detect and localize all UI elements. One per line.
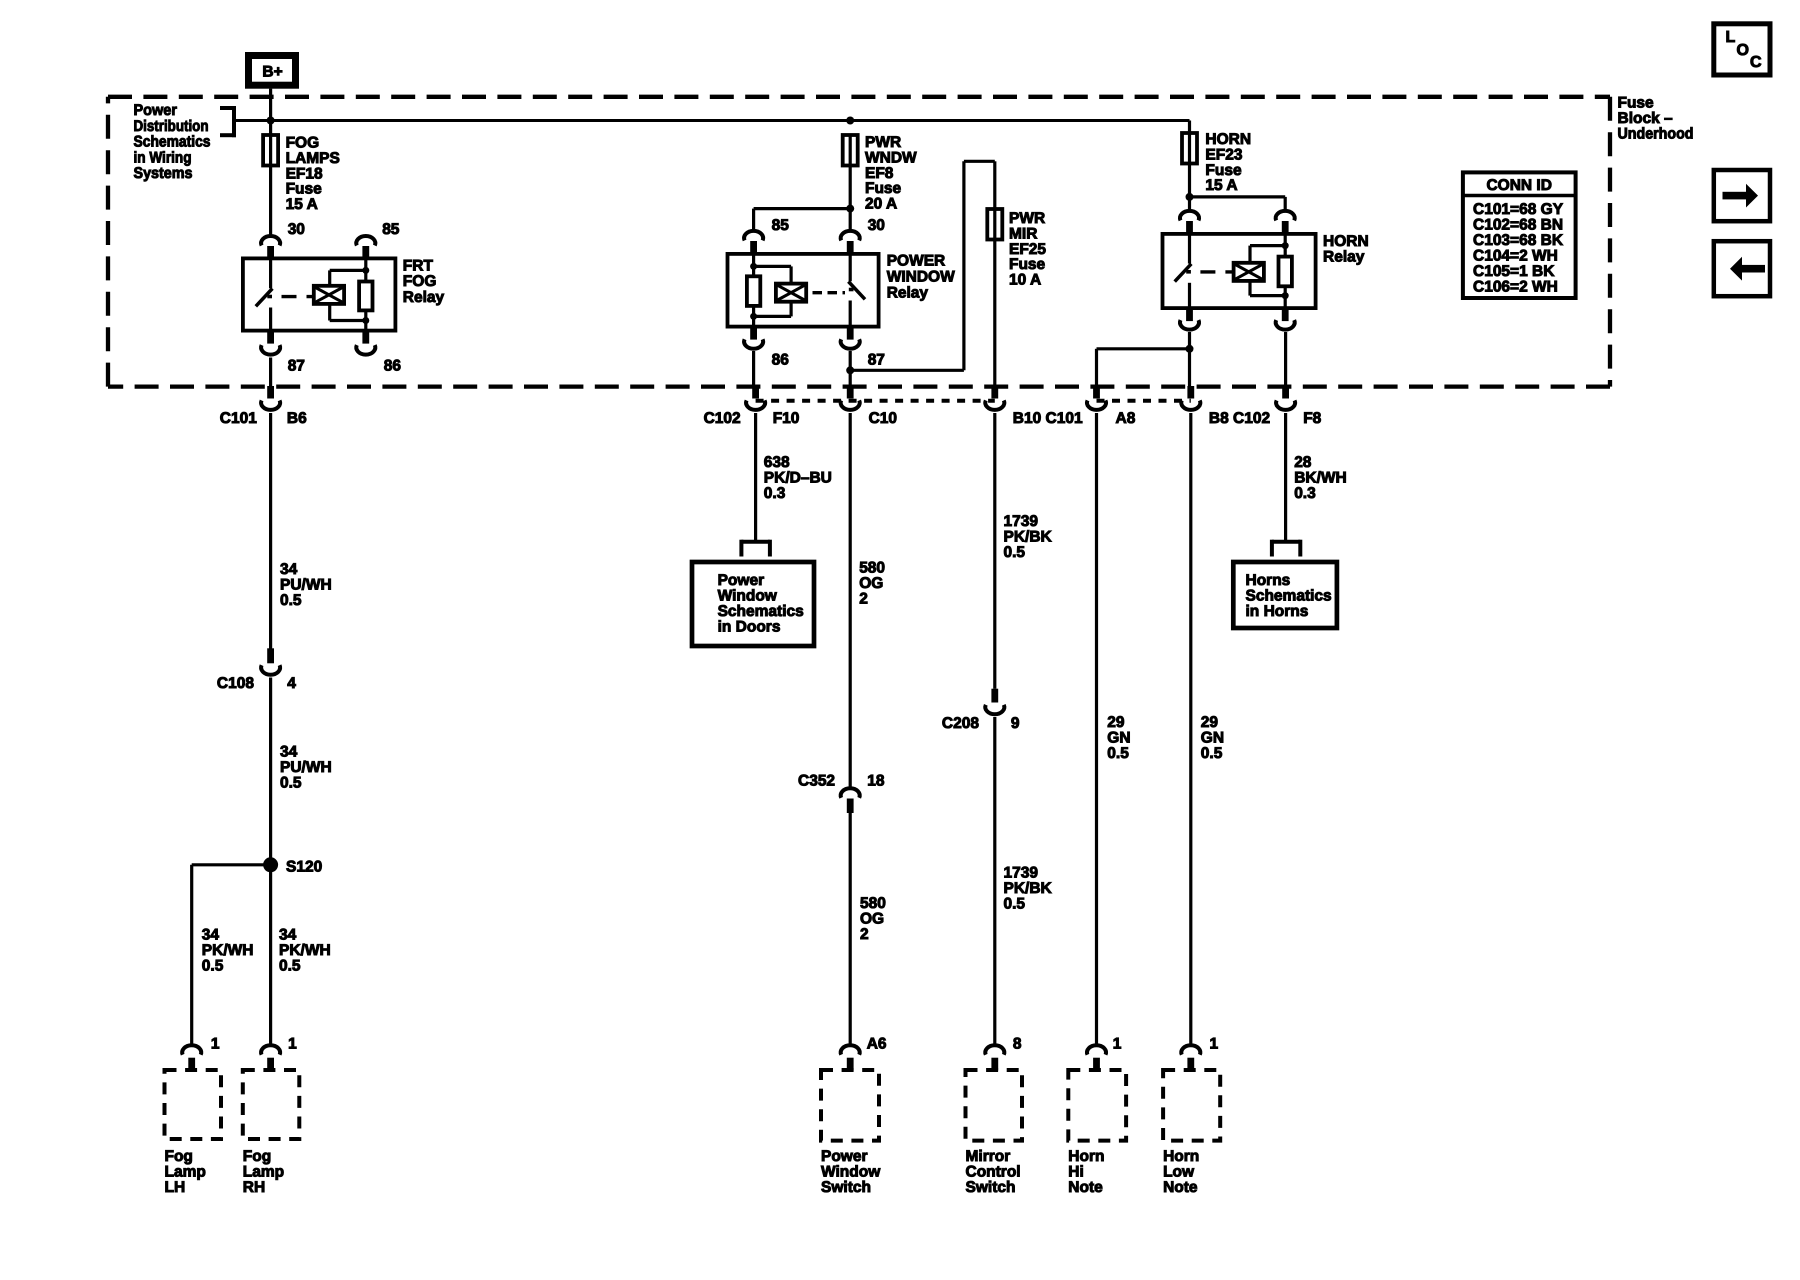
- label C101: [220, 410, 257, 427]
- connector pin 85 of POWER WINDOW relay: [744, 231, 763, 255]
- CONN ID table: [1463, 172, 1576, 298]
- svg-text:C208: C208: [942, 715, 979, 732]
- pin label 86: [384, 357, 402, 374]
- POWER WINDOW relay switch pivot to pin 87: [849, 301, 852, 327]
- connector mirror control switch pin 8: [985, 1045, 1004, 1070]
- svg-text:Window: Window: [718, 588, 778, 605]
- wire 580 OG lower segment: [849, 813, 852, 1045]
- fuse EF25 PWR MIR 10A: [987, 208, 1002, 241]
- wire fuse EF18 to relay pin 30: [269, 166, 272, 237]
- wire fuse EF23 to junction: [1188, 164, 1191, 197]
- connector right pin of HORN relay: [1276, 211, 1295, 235]
- svg-text:30: 30: [868, 217, 885, 234]
- pin label 1 fog lamp LH: [211, 1036, 220, 1053]
- connector C101 pin B6: [261, 386, 280, 410]
- wire relay 86 to connector C102-F10: [752, 351, 755, 387]
- connector pin 86 of FRT FOG relay: [356, 331, 375, 355]
- dotted connector gang line F10-C10-B10: [756, 399, 995, 403]
- svg-text:C101=68 GY: C101=68 GY: [1473, 201, 1564, 218]
- connector pin 87 of FRT FOG relay: [261, 331, 280, 355]
- wire label 34 PU/WH 0.5 lower: [280, 744, 332, 792]
- svg-text:in Wiring: in Wiring: [134, 149, 192, 166]
- svg-text:18: 18: [867, 773, 885, 790]
- svg-text:C102=68 BN: C102=68 BN: [1473, 216, 1563, 233]
- wire 29 GN left segment: [1095, 413, 1098, 1045]
- junction coil-resistor top: [750, 263, 757, 270]
- HORN relay switch contact: [1188, 234, 1191, 264]
- wire B+ to fuse block bus: [269, 89, 272, 136]
- pin label 1 fog lamp RH: [288, 1036, 297, 1053]
- svg-text:Relay: Relay: [403, 289, 445, 306]
- svg-text:1: 1: [211, 1036, 220, 1053]
- junction A8 branch: [1186, 345, 1194, 353]
- forward arrow icon: [1714, 170, 1770, 221]
- svg-text:B+: B+: [262, 63, 282, 80]
- svg-text:9: 9: [1011, 715, 1020, 732]
- svg-text:S120: S120: [286, 859, 322, 876]
- pin label 8: [1013, 1036, 1022, 1053]
- connector C101 pin B10: [985, 386, 1004, 410]
- connector horn low note pin 1: [1181, 1045, 1200, 1070]
- svg-text:Power: Power: [134, 102, 178, 119]
- svg-text:15 A: 15 A: [286, 196, 318, 213]
- label FOG LAMPS EF18 Fuse 15 A: [286, 135, 340, 214]
- svg-text:C105=1 BK: C105=1 BK: [1473, 263, 1555, 280]
- svg-text:0.5: 0.5: [280, 774, 302, 791]
- label Mirror Control Switch: [966, 1148, 1021, 1196]
- FRT FOG relay switch contact from pin 30: [269, 258, 272, 288]
- wire HORN relay right pin to connector C102-F8: [1284, 332, 1287, 387]
- connector bottom-right pin of HORN relay: [1276, 308, 1295, 330]
- FRT FOG relay switch pivot to pin 87: [269, 308, 272, 331]
- svg-text:0.5: 0.5: [1107, 745, 1129, 762]
- component Horn Hi Note (dashed box): [1068, 1070, 1126, 1141]
- svg-text:2: 2: [860, 926, 869, 943]
- junction 87 to PWR MIR riser: [846, 366, 854, 374]
- label Power Window Switch: [821, 1148, 881, 1196]
- wire label 29 GN 0.5 left: [1107, 714, 1130, 762]
- fuse EF18 FOG LAMPS 15A: [263, 134, 278, 167]
- POWER WINDOW relay coil: [776, 284, 806, 302]
- connector horn hi note pin 1: [1087, 1045, 1106, 1070]
- wire label 34 PU/WH 0.5 upper: [280, 561, 332, 609]
- wire coil top branch: [330, 270, 366, 285]
- relay U3 HORN relay box: [1163, 234, 1316, 308]
- wire label 1739 PK/BK 0.5 upper: [1004, 513, 1053, 561]
- pin label A6: [867, 1036, 887, 1053]
- svg-text:0.3: 0.3: [1294, 485, 1316, 502]
- label C10: [869, 410, 897, 427]
- component Fog Lamp RH (dashed box): [243, 1070, 299, 1139]
- component Fog Lamp LH (dashed box): [165, 1070, 222, 1139]
- POWER WINDOW relay switch blade: [848, 282, 865, 300]
- svg-text:Distribution: Distribution: [134, 118, 209, 135]
- wire 34 PU/WH upper segment: [269, 413, 272, 649]
- svg-text:Horns: Horns: [1246, 572, 1291, 589]
- pin label 1 horn hi: [1113, 1036, 1122, 1053]
- POWER WINDOW relay resistor: [747, 254, 760, 327]
- svg-text:C104=2 WH: C104=2 WH: [1473, 247, 1558, 264]
- svg-text:A6: A6: [867, 1036, 887, 1053]
- label 18: [867, 773, 885, 790]
- reference box Horns Schematics in Horns: [1233, 562, 1337, 628]
- off-page bracket to Power Window Schematics: [741, 540, 770, 557]
- label Horn Hi Note: [1068, 1148, 1104, 1196]
- connector pin 85 of FRT FOG relay: [356, 236, 375, 259]
- connector fog lamp RH pin 1: [261, 1045, 280, 1070]
- connector C108 pin 4: [261, 648, 280, 674]
- wire fuse EF8 to junction: [849, 166, 852, 209]
- label PWR WNDW EF8 Fuse 20 A: [865, 134, 917, 213]
- label Fuse Block - Underhood: [1618, 95, 1694, 143]
- label PWR MIR EF25 Fuse 10 A: [1009, 210, 1046, 289]
- back arrow icon: [1714, 241, 1770, 296]
- wire HORN relay left pin down: [1188, 332, 1191, 387]
- connector fog lamp LH pin 1: [182, 1045, 201, 1070]
- svg-text:LH: LH: [165, 1179, 186, 1196]
- junction coil-resistor top: [1282, 242, 1289, 249]
- wire 1739 PK/BK lower segment: [993, 717, 996, 1045]
- svg-text:FRT: FRT: [403, 257, 434, 274]
- FRT FOG relay switch blade: [256, 289, 273, 307]
- wire label 580 OG 2 lower: [860, 895, 886, 943]
- svg-text:0.5: 0.5: [1004, 895, 1026, 912]
- POWER WINDOW relay switch contact from pin 30: [849, 254, 852, 281]
- pin label 1 horn low: [1210, 1036, 1219, 1053]
- label 9: [1011, 715, 1020, 732]
- svg-text:O: O: [1737, 42, 1749, 59]
- svg-text:30: 30: [288, 221, 305, 238]
- connector C102 pin F10: [746, 386, 765, 410]
- label POWER WINDOW Relay: [887, 253, 955, 302]
- svg-text:20 A: 20 A: [865, 196, 897, 213]
- pin label 30: [868, 217, 885, 234]
- wire label 28 BK/WH 0.3: [1294, 454, 1347, 502]
- junction coil-resistor bottom: [750, 313, 757, 320]
- svg-text:85: 85: [382, 221, 400, 238]
- svg-text:86: 86: [772, 352, 790, 369]
- label B8 C102: [1209, 410, 1270, 427]
- component Power Window Switch (dashed box): [821, 1070, 879, 1141]
- svg-text:RH: RH: [243, 1179, 265, 1196]
- svg-text:Note: Note: [1068, 1179, 1103, 1196]
- wire to pin 30: [849, 209, 852, 231]
- svg-text:HORN: HORN: [1323, 233, 1369, 250]
- wire 34 PU/WH lower segment: [269, 678, 272, 865]
- wire S120 branch to fog lamp LH: [192, 865, 272, 1045]
- relay U2 POWER WINDOW relay box: [728, 254, 879, 327]
- component Horn Low Note (dashed box): [1163, 1070, 1220, 1141]
- FRT FOG relay coil actuation dashed link: [282, 295, 314, 298]
- wire main bus B+ feed: [234, 119, 1190, 122]
- splice S120: [263, 857, 278, 872]
- label B10 C101: [1013, 410, 1083, 427]
- connector bottom-left pin of HORN relay: [1180, 308, 1199, 330]
- label C102: [704, 410, 741, 427]
- HORN relay coil actuation dashed link: [1200, 270, 1233, 273]
- svg-text:C: C: [1750, 54, 1762, 71]
- svg-text:Schematics: Schematics: [718, 603, 804, 620]
- connector pin 86 of POWER WINDOW relay: [744, 327, 763, 349]
- connector pin C10: [841, 386, 860, 410]
- connector C208 pin 9: [985, 689, 1004, 715]
- svg-text:C108: C108: [217, 675, 254, 692]
- wire coil bottom branch: [754, 302, 792, 317]
- connector pin 87 of POWER WINDOW relay: [841, 327, 860, 349]
- svg-text:POWER: POWER: [887, 253, 946, 270]
- connector pin 30 of FRT FOG relay: [261, 236, 280, 259]
- wire 28 BK/WH to horns schematic: [1284, 413, 1287, 542]
- svg-text:0.5: 0.5: [279, 957, 301, 974]
- wire 29 GN right segment: [1189, 413, 1192, 1045]
- junction coil-resistor bottom: [362, 317, 369, 324]
- fuse EF8 PWR WNDW 20A: [843, 134, 858, 167]
- svg-text:Schematics: Schematics: [1246, 588, 1332, 605]
- wire label 580 OG 2 upper: [859, 560, 885, 608]
- label HORN EF23 Fuse 15 A: [1205, 131, 1251, 194]
- pin label 87: [288, 357, 305, 374]
- svg-text:Switch: Switch: [966, 1179, 1016, 1196]
- relay U1 FRT FOG relay box: [243, 258, 396, 330]
- label Horn Low Note: [1163, 1148, 1199, 1196]
- svg-text:CONN ID: CONN ID: [1486, 177, 1551, 194]
- reference box Power Window Schematics in Doors: [692, 562, 814, 646]
- wire label 29 GN 0.5 right: [1201, 714, 1224, 762]
- svg-text:C103=68 BK: C103=68 BK: [1473, 232, 1564, 249]
- svg-text:C10: C10: [869, 410, 897, 427]
- wire fuse EF25 to connector B10: [993, 240, 996, 388]
- label Fog Lamp RH: [243, 1148, 284, 1196]
- svg-text:Power: Power: [718, 572, 765, 589]
- pin label 85: [772, 217, 790, 234]
- wire to HORN relay left pin: [1188, 197, 1191, 212]
- svg-text:F10: F10: [773, 410, 800, 427]
- connector C352 pin 18: [841, 788, 860, 813]
- svg-text:B6: B6: [287, 410, 307, 427]
- svg-text:Relay: Relay: [887, 284, 929, 301]
- wire label 638 PK/D-BU 0.3: [764, 454, 832, 502]
- junction coil-resistor bottom: [1282, 292, 1289, 299]
- connector left pin of HORN relay: [1180, 211, 1199, 235]
- connector C102 pin F8: [1276, 386, 1295, 410]
- wire branch to HORN relay right pin: [1190, 197, 1286, 212]
- label S120: [286, 859, 322, 876]
- dotted connector gang line A8-B8: [1097, 399, 1191, 403]
- svg-text:1: 1: [288, 1036, 297, 1053]
- svg-text:1: 1: [1113, 1036, 1122, 1053]
- pin label 30: [288, 221, 305, 238]
- svg-text:4: 4: [287, 675, 296, 692]
- svg-text:1: 1: [1210, 1036, 1219, 1053]
- svg-text:WINDOW: WINDOW: [887, 269, 955, 286]
- svg-text:10 A: 10 A: [1009, 272, 1041, 289]
- label HORN Relay: [1323, 233, 1369, 266]
- svg-text:C102: C102: [704, 410, 741, 427]
- B+ battery feed symbol: [249, 56, 296, 86]
- svg-text:0.5: 0.5: [1004, 544, 1026, 561]
- wire branch to connector C101-A8: [1097, 349, 1190, 387]
- svg-text:86: 86: [384, 357, 402, 374]
- svg-text:C352: C352: [798, 773, 835, 790]
- pin label 85: [382, 221, 400, 238]
- connector power window switch pin A6: [841, 1045, 860, 1070]
- wire relay 87 down: [849, 351, 852, 387]
- fuse EF23 HORN 15A: [1182, 132, 1197, 165]
- label Fog Lamp LH: [165, 1148, 206, 1196]
- junction bus to PWR WNDW fuse: [846, 117, 854, 125]
- svg-text:C106=2 WH: C106=2 WH: [1473, 278, 1558, 295]
- junction coil-resistor top: [362, 267, 369, 274]
- wire coil top branch: [1250, 246, 1285, 263]
- svg-text:15 A: 15 A: [1205, 177, 1237, 194]
- label A8: [1116, 410, 1136, 427]
- FRT FOG relay coil: [314, 286, 344, 304]
- label Horns Schematics in Horns: [1246, 572, 1332, 620]
- connector C101 pin A8: [1087, 386, 1106, 410]
- junction bus to FOG LAMPS fuse: [267, 117, 275, 125]
- wire coil bottom branch: [1250, 279, 1285, 295]
- HORN relay resistor: [1279, 234, 1292, 308]
- svg-text:0.5: 0.5: [1201, 745, 1223, 762]
- wire label 1739 PK/BK 0.5 lower: [1004, 865, 1053, 913]
- component Mirror Control Switch (dashed box): [966, 1070, 1023, 1141]
- svg-text:Underhood: Underhood: [1618, 125, 1694, 142]
- svg-text:A8: A8: [1116, 410, 1136, 427]
- HORN relay coil: [1234, 263, 1264, 281]
- FRT FOG relay resistor: [359, 258, 372, 330]
- power distribution note bracket: [220, 106, 236, 137]
- label C208: [942, 715, 979, 732]
- label 4: [287, 675, 296, 692]
- label F10: [773, 410, 800, 427]
- svg-text:Switch: Switch: [821, 1179, 871, 1196]
- wire branch to pin 85: [754, 209, 851, 231]
- fuse block underhood dashed border: [108, 97, 1610, 387]
- label Power Window Schematics in Doors: [718, 572, 804, 636]
- wire S120 to fog lamp RH: [269, 865, 272, 1045]
- svg-text:Systems: Systems: [134, 165, 193, 182]
- svg-text:0.3: 0.3: [764, 485, 786, 502]
- wire 638 PK/D-BU to doors schematic: [754, 413, 757, 542]
- svg-text:85: 85: [772, 217, 790, 234]
- pin label 86: [772, 352, 790, 369]
- wire label 34 PK/WH 0.5 left: [202, 927, 254, 975]
- svg-text:87: 87: [288, 357, 305, 374]
- junction HORN relay coil branch: [1186, 193, 1194, 201]
- svg-text:0.5: 0.5: [280, 592, 302, 609]
- svg-text:in Doors: in Doors: [718, 619, 781, 636]
- wire bus corner to HORN fuse: [1188, 121, 1191, 135]
- svg-text:87: 87: [868, 352, 885, 369]
- svg-text:B8 C102: B8 C102: [1209, 410, 1270, 427]
- label C108: [217, 675, 254, 692]
- svg-text:Note: Note: [1163, 1179, 1198, 1196]
- POWER WINDOW relay coil actuation dashed link: [813, 291, 846, 294]
- wire coil bottom branch: [330, 304, 366, 321]
- svg-text:8: 8: [1013, 1036, 1022, 1053]
- label FRT FOG Relay: [403, 257, 445, 306]
- wire coil top branch: [754, 266, 792, 283]
- svg-text:FOG: FOG: [403, 273, 437, 290]
- wire 1739 PK/BK upper segment: [993, 413, 996, 689]
- wire riser to PWR MIR fuse: [850, 161, 995, 370]
- HORN relay switch blade: [1175, 264, 1192, 282]
- svg-text:L: L: [1726, 29, 1736, 46]
- label B6: [287, 410, 307, 427]
- connector C102 pin B8: [1181, 386, 1200, 410]
- junction 30/85 branch of POWER WINDOW relay: [846, 205, 854, 213]
- LOC page icon: [1714, 24, 1770, 75]
- svg-text:C101: C101: [220, 410, 257, 427]
- pin label 87: [868, 352, 885, 369]
- svg-text:Schematics: Schematics: [134, 134, 211, 151]
- connector pin 30 of POWER WINDOW relay: [841, 231, 860, 255]
- label F8: [1303, 410, 1321, 427]
- wire 580 OG upper segment: [849, 413, 852, 789]
- svg-text:F8: F8: [1303, 410, 1321, 427]
- svg-text:B10 C101: B10 C101: [1013, 410, 1083, 427]
- svg-text:Relay: Relay: [1323, 249, 1365, 266]
- svg-text:in Horns: in Horns: [1246, 603, 1309, 620]
- svg-text:0.5: 0.5: [202, 957, 224, 974]
- HORN relay switch pivot: [1188, 283, 1191, 308]
- label Power Distribution Schematics in Wiring Systems: [134, 102, 211, 182]
- svg-text:2: 2: [859, 590, 868, 607]
- wire relay 87 to connector C101-B6: [269, 358, 272, 388]
- wire label 34 PK/WH 0.5 right: [279, 927, 331, 975]
- label C352: [798, 773, 835, 790]
- off-page bracket to Horns Schematics: [1272, 540, 1300, 557]
